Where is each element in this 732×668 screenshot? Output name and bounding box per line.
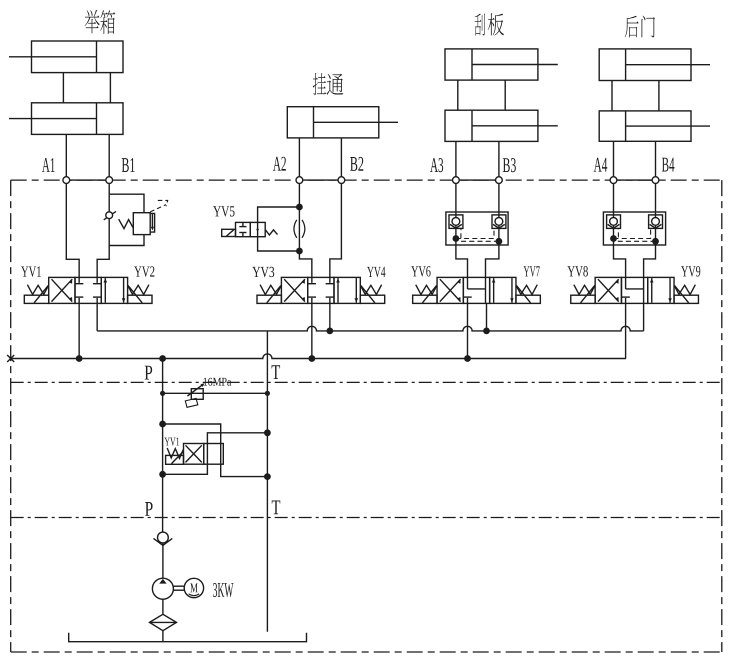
node relief-P [160,391,165,396]
node V3-P [464,355,471,362]
cylinder C3a barrel [445,49,558,80]
relief valve RV1 box [133,213,154,235]
wire A2 to valve V2 port A [299,251,311,277]
valve YV5 2/2 body [236,222,266,236]
dual check valve block Z3 [446,212,508,245]
wire A1 riser [65,134,67,180]
cylinder C2 barrel [287,107,398,138]
node B3 pilot [496,238,503,245]
solenoid label YV9 [681,266,700,276]
wire A2 between nodes [298,207,300,251]
wire A3 through block Z3 [455,184,457,218]
wire A1 to valve V1 port A [66,184,79,278]
wire B4 to valve V4 port B [644,245,656,277]
solenoid label YV8 [567,266,587,277]
wire B1 to valve V1 port B [97,184,109,278]
wire valve V4 P to rail end [625,303,627,358]
label A4 [594,158,608,172]
plugged port X at P rail end [7,355,14,362]
valve V2 body YV3/YV4 [257,277,385,303]
label 16MPa [204,378,232,386]
port A1 [63,177,70,184]
wire A4 riser [613,141,615,180]
dual check valve block Z4 [603,212,665,245]
wire A3 to valve V3 port A [456,245,468,277]
wire check to pump [162,543,164,578]
spring RV1 [119,219,134,228]
node V3-T [483,328,490,335]
pilot dashed line RV1 [150,200,168,212]
cylinder C4a barrel [599,49,710,81]
wire unloader second branch to T [163,433,268,475]
label P lower [145,502,153,516]
wire P supply riser [162,359,164,518]
node P supply [159,355,166,362]
wire relief line P-T [163,392,268,394]
label 刮板 (scraper) [475,13,504,35]
P pressure rail [11,354,626,359]
node A2 lower [296,248,303,255]
label P upper [145,366,153,380]
wire A4 to valve V4 port A [614,245,626,277]
node A2 upper [296,204,303,211]
node unloader-T-top [264,429,271,436]
node unloader-P-top [159,421,166,428]
wire P to check valve [162,518,164,533]
wire C3a-C3b rod side [504,80,506,110]
label B2 [350,157,363,171]
wire valve V3 T to rail [486,303,488,331]
solenoid YV5 box [222,229,236,236]
node B4 pilot [652,238,659,245]
label 挂通 (hitch line) [313,73,344,95]
pilot dashed A4->B4 check [614,228,651,238]
port B1 [106,177,113,184]
node relief-T [265,391,270,396]
node A3 pilot [453,235,460,242]
label T upper [272,365,280,379]
port B2 [338,177,345,184]
wire B3 to valve V3 port B [486,245,499,277]
node V1-P [76,355,83,362]
motor M 3KW [184,578,203,597]
wire valve V4 T to rail end [643,303,645,331]
cylinder C4b barrel [599,111,710,141]
wire B3 through block Z3 [498,184,500,218]
valve V4 body YV8/YV9 [571,277,699,303]
check valve CV1 on B1 [104,211,116,219]
wire B4 through block Z4 [655,184,657,218]
shaft pump-motor [173,586,184,590]
wire C4a-C4b rod side [658,81,660,111]
wire valve V2 P to rail [311,303,313,358]
node A4 pilot [610,235,617,242]
wire A2 riser to node [298,184,300,208]
solenoid label YV7 [524,266,540,276]
node unloader-T-bottom [264,473,271,480]
valve V3 body YV6/YV7 [413,277,541,303]
label A2 [273,157,286,171]
wire T return drop to tank [266,393,268,632]
wire A4 through block Z4 [613,184,615,218]
orifice on A2 line [294,220,305,238]
wire C1a-C1b rod side [109,73,111,103]
check valve CV2 suction [154,532,173,545]
label A3 [430,158,443,172]
valve V1 body YV1/YV2 [24,277,152,303]
node V2-T [326,328,333,335]
port B4 [652,177,659,184]
pilot dashed A3->B3 check [456,228,494,238]
solenoid label YV2 [134,266,154,276]
pump P1 [152,578,173,599]
label A1 [42,158,55,172]
section divider line 2 [11,517,722,519]
label B1 [122,158,135,172]
section divider line 1 [11,381,722,383]
pilot dashed B4->A4 check [618,228,655,241]
port A3 [453,177,460,184]
label 后门 (rear door) [625,16,655,38]
bypass branch YV5 [258,207,300,251]
valve YV1b 2/2 body [184,444,224,465]
port B3 [496,177,503,184]
wire C3a-C3b cap side [457,80,459,110]
wire C4a-C4b cap side [611,81,613,111]
port A4 [610,177,617,184]
relief valve RV2 16MPa [185,383,204,407]
wire filter to tank [162,631,164,642]
node V2-P [308,355,315,362]
wire B1 riser [108,134,110,180]
solenoid label YV1 [21,266,41,276]
solenoid label YV3 [252,267,274,277]
T return rail [97,326,643,331]
wire valve V1 P to rail [78,303,80,358]
wire B4 riser [655,141,657,180]
cylinder C1b barrel [9,103,123,135]
label B4 [662,158,675,172]
counterbalance branch rect B1 [109,194,144,245]
solenoid label YV4 [367,267,385,277]
wire unloader top branch from P [163,424,268,477]
manifold enclosure dashed box [11,180,722,652]
wire B2 riser [340,138,342,180]
wire valve V1 T to rail [96,303,98,331]
solenoid label YV6 [411,266,430,276]
wire C1a-C1b cap side [62,73,64,103]
label B3 [503,158,516,172]
label 3KW [213,583,233,597]
port A2 [296,177,303,184]
label YV5 [213,206,234,216]
filter F1 [150,614,177,630]
wire B3 riser [498,141,500,180]
wire B2 to valve V2 port B [330,184,342,278]
cylinder C3b barrel [445,110,558,141]
top edge solid segments at ports [66,179,655,181]
tank [69,633,307,642]
wire valve V2 T to rail [329,303,331,331]
wire pump to filter [162,599,164,614]
wire A3 riser [455,141,457,180]
label T lower [272,500,280,514]
cylinder C1a barrel [9,41,123,73]
solenoid YV1b box [166,452,184,464]
label 举箱 (lift-box) [85,10,115,34]
spring YV1b [167,448,183,458]
wire valve V3 P to rail [467,303,469,358]
node unloader-P-bottom [159,471,166,478]
wire A2 riser [298,138,300,180]
wire T rail drop [266,331,268,393]
label YV1 unloader [164,438,179,446]
spring YV5 [265,230,277,235]
pilot dashed B3->A3 check [461,228,499,241]
